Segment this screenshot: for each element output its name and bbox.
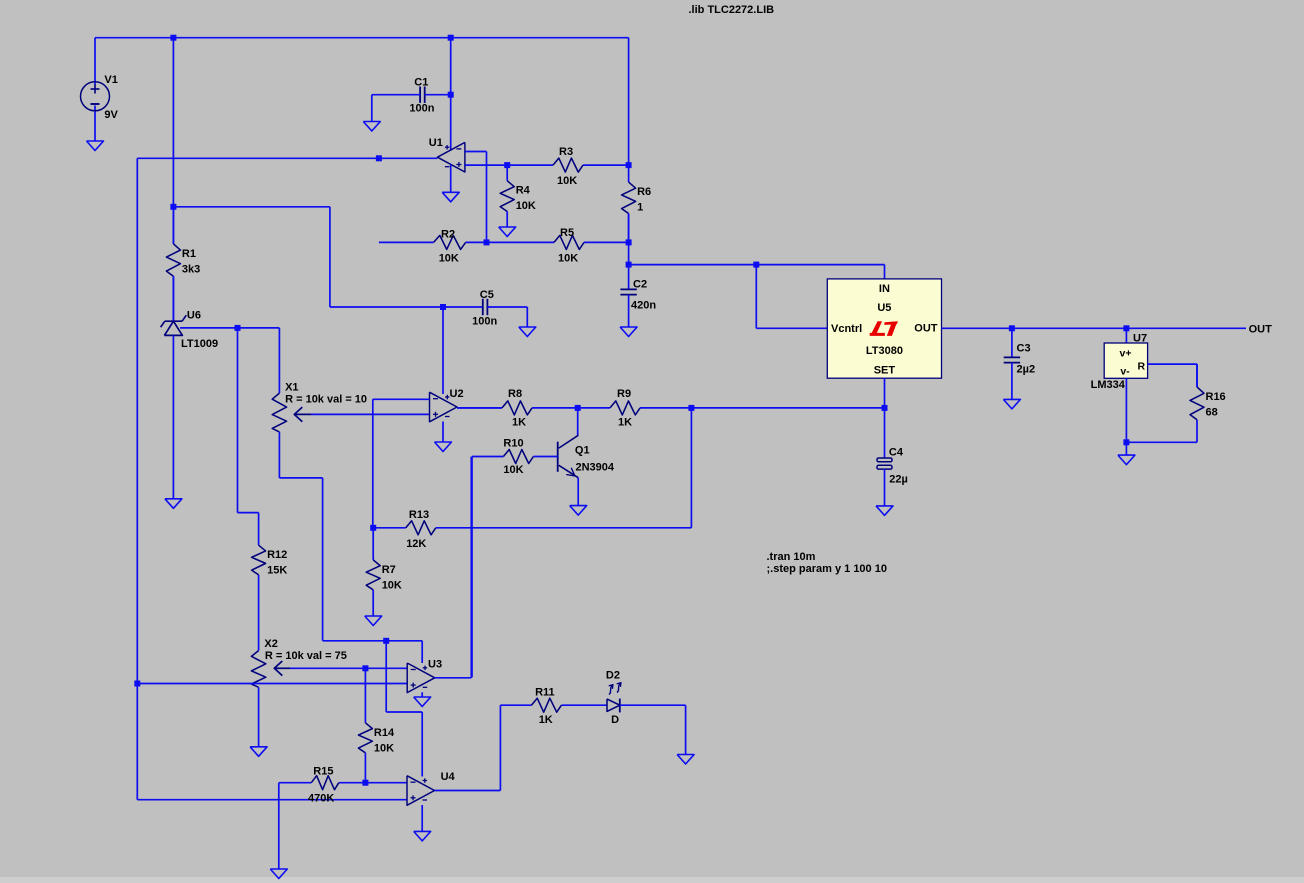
svg-text:1: 1 [637, 202, 643, 214]
svg-text:;.step param y 1 100 10: ;.step param y 1 100 10 [767, 563, 887, 575]
svg-text:1K: 1K [618, 416, 632, 428]
svg-text:C1: C1 [414, 77, 428, 89]
ground U6 [165, 499, 182, 509]
spice directive .lib [689, 4, 775, 16]
zener reference U6 LT1009 [161, 276, 280, 499]
wire top rail [95, 37, 629, 39]
svg-text:R13: R13 [409, 509, 429, 521]
ground X2 [250, 747, 267, 757]
wire R15 left down [278, 783, 280, 869]
svg-text:SET: SET [874, 364, 896, 376]
resistor R6 [622, 182, 652, 242]
svg-text:10K: 10K [558, 252, 578, 264]
net label OUT [1249, 324, 1273, 336]
svg-text:R15: R15 [313, 766, 333, 778]
wire X1 bottom path [279, 478, 322, 641]
node junction U6-out [235, 325, 241, 331]
op-amp U4 [407, 771, 456, 805]
node junction Vcntrl-branch [753, 262, 759, 268]
svg-text:R6: R6 [637, 186, 651, 198]
ground U2 [435, 442, 452, 452]
resistor R3 [507, 146, 628, 187]
node junction SET-C4 [882, 405, 888, 411]
node junction leftcol-U3in+ [134, 681, 140, 687]
node junction C5-left [440, 304, 446, 310]
wire U1 in+ stub [465, 164, 507, 166]
wire R10-left to U3 out col [471, 457, 473, 678]
svg-text:OUT: OUT [914, 323, 938, 335]
svg-text:U7: U7 [1133, 333, 1147, 345]
svg-text:U3: U3 [428, 658, 442, 670]
svg-text:C4: C4 [889, 446, 904, 458]
wire U2 in- row [373, 399, 430, 528]
wire U2 V+ column [442, 307, 444, 394]
wire U1 V- to ground [450, 165, 452, 193]
spice directive .tran [767, 551, 887, 575]
svg-text:10K: 10K [382, 579, 402, 591]
op-amp U1 [429, 137, 465, 172]
resistor R16 [1190, 364, 1226, 442]
ground C4 [876, 506, 893, 516]
ground R4 [499, 227, 516, 237]
resistor R15 [279, 766, 366, 805]
wire U3 V- to ground [421, 692, 423, 697]
svg-text:C2: C2 [633, 279, 647, 291]
wire U1 output [137, 157, 437, 159]
ground C5 [519, 327, 536, 337]
svg-text:D: D [611, 714, 619, 726]
node junction R9-SETrow [688, 405, 694, 411]
wire U3 output [435, 457, 472, 678]
wire U2 output [457, 407, 502, 409]
svg-text:R7: R7 [382, 564, 396, 576]
svg-text:R16: R16 [1206, 391, 1226, 403]
node junction C3 [1009, 325, 1015, 331]
wire R6 column top [628, 38, 630, 182]
resistor R8 [457, 388, 578, 429]
svg-text:100n: 100n [472, 316, 497, 328]
svg-text:LM334: LM334 [1091, 379, 1126, 391]
node junction R2-R5 [484, 239, 490, 245]
wire R12 column [238, 328, 259, 545]
ground U3 [414, 697, 431, 707]
wire U2 V- to ground [442, 422, 444, 443]
node junction U7-top [1123, 325, 1129, 331]
svg-text:R = 10k val = 10: R = 10k val = 10 [285, 394, 367, 406]
svg-text:X1: X1 [285, 381, 298, 393]
node junction U7-bottom [1123, 439, 1129, 445]
svg-text:470K: 470K [308, 793, 334, 805]
resistor R14 [358, 668, 395, 782]
svg-text:U1: U1 [429, 137, 443, 149]
wire U1 V+ column [450, 38, 452, 151]
wire C2node to U5 IN [629, 265, 885, 279]
resistor R13 [373, 509, 691, 550]
resistor R9 [578, 388, 692, 429]
wire U3 V+ rail [323, 641, 423, 663]
svg-text:U2: U2 [450, 388, 464, 400]
svg-text:9V: 9V [104, 109, 118, 121]
svg-text:10K: 10K [439, 253, 459, 265]
regulator U5 LT3080 [827, 279, 941, 378]
wire U5 SET to node [884, 378, 886, 408]
node junction C2-top [626, 262, 632, 268]
resistor R4 [500, 165, 536, 227]
wire Vcntrl branch [756, 265, 827, 329]
svg-text:2µ2: 2µ2 [1017, 364, 1036, 376]
wire R1 column [172, 38, 174, 244]
svg-text:.lib TLC2272.LIB: .lib TLC2272.LIB [689, 4, 775, 16]
capacitor C1 [372, 77, 451, 122]
wire X2 wiper to U3 in- [290, 667, 407, 669]
capacitor C5 [330, 289, 527, 328]
svg-text:R8: R8 [508, 388, 522, 400]
wire R9 to SET node [691, 407, 884, 409]
ground V1 [87, 141, 104, 151]
wire left col to C5 col [173, 207, 330, 307]
svg-text:R10: R10 [503, 438, 523, 450]
svg-text:420n: 420n [631, 300, 656, 312]
node junction C1 [448, 92, 454, 98]
svg-text:IN: IN [879, 283, 890, 295]
ground U1 [442, 192, 459, 202]
svg-text:v-: v- [1120, 366, 1130, 378]
svg-text:U4: U4 [441, 771, 456, 783]
wire U4 V- to ground [421, 805, 423, 831]
svg-text:10K: 10K [557, 175, 577, 187]
ground U4 [414, 831, 431, 841]
wire U4 output [435, 705, 501, 790]
svg-text:D2: D2 [606, 669, 620, 681]
resistor R2 [434, 229, 487, 265]
ground Q1 [570, 506, 587, 515]
svg-text:OUT: OUT [1249, 324, 1273, 336]
svg-text:X2: X2 [264, 638, 277, 650]
ground C1 [363, 122, 380, 132]
svg-text:10K: 10K [503, 464, 523, 476]
node junction R3-right [626, 162, 632, 168]
svg-text:R9: R9 [617, 388, 631, 400]
capacitor C4 [877, 408, 908, 506]
svg-text:R2: R2 [441, 229, 455, 241]
svg-text:10K: 10K [516, 200, 536, 212]
svg-text:.tran 10m: .tran 10m [767, 551, 816, 563]
resistor R10 [472, 438, 558, 476]
svg-text:v+: v+ [1120, 348, 1132, 360]
node junction R3-left [504, 162, 510, 168]
svg-text:C3: C3 [1017, 342, 1031, 354]
svg-text:1K: 1K [512, 416, 526, 428]
resistor R7 [366, 528, 402, 616]
capacitor C2 [620, 279, 656, 328]
svg-text:2N3904: 2N3904 [576, 461, 615, 473]
svg-text:3k3: 3k3 [182, 263, 200, 275]
wire U3 in+ row [137, 683, 407, 685]
node junction R14-R15 [362, 780, 368, 786]
svg-text:R5: R5 [560, 227, 574, 239]
op-amp U3 [407, 658, 442, 692]
svg-text:R: R [1138, 360, 1146, 372]
svg-text:R = 10k val = 75: R = 10k val = 75 [265, 650, 347, 662]
svg-text:R12: R12 [267, 549, 287, 561]
ground D2 [677, 755, 694, 765]
wire U1 in- stub [465, 152, 487, 243]
svg-text:C5: C5 [480, 289, 494, 301]
ground C3 [1003, 399, 1020, 409]
resistor R5 [487, 227, 629, 265]
svg-text:10K: 10K [374, 742, 394, 754]
svg-text:68: 68 [1206, 407, 1218, 419]
node junction R5-right [626, 239, 632, 245]
svg-text:12K: 12K [406, 538, 426, 550]
svg-text:R1: R1 [182, 248, 196, 260]
wire R16 bottom [1126, 441, 1197, 443]
ground R7 [365, 616, 382, 626]
ground R15 [270, 869, 287, 879]
svg-text:15K: 15K [267, 565, 287, 577]
potentiometer X2 [251, 638, 346, 747]
node junction R13-R7 [370, 525, 376, 531]
node junction R8-R9 [575, 405, 581, 411]
svg-text:R14: R14 [374, 727, 395, 739]
wire U7 ground stub [1125, 442, 1127, 455]
wire OUT rail [942, 327, 1247, 329]
wire R14node to U4 in- [365, 782, 407, 784]
wire R6-C2 link [628, 214, 630, 290]
svg-text:U6: U6 [187, 310, 201, 322]
wire far-left column [136, 158, 138, 799]
current source U7 LM334 [1091, 328, 1148, 442]
svg-text:22µ: 22µ [889, 474, 908, 486]
wire U4 in+ row [137, 799, 407, 801]
node junction top-left [170, 35, 176, 41]
resistor R1 [166, 207, 200, 321]
svg-text:LT1009: LT1009 [181, 338, 218, 350]
wire R13 to R9 junction col [690, 408, 692, 528]
node junction U1-out-R2col [376, 155, 382, 161]
voltage source V1 [81, 38, 119, 141]
potentiometer X1 [272, 328, 367, 478]
svg-text:1K: 1K [539, 714, 553, 726]
svg-text:R4: R4 [516, 185, 531, 197]
op-amp U2 [430, 388, 464, 422]
svg-text:Q1: Q1 [575, 444, 590, 456]
svg-text:R11: R11 [535, 687, 555, 699]
svg-text:LT3080: LT3080 [866, 345, 903, 357]
wire R2 row left [379, 241, 434, 243]
capacitor C3 [1004, 328, 1035, 399]
ground U7 [1118, 455, 1135, 465]
wire X1 wiper to U2 in+ [311, 413, 430, 415]
svg-text:U5: U5 [877, 302, 891, 314]
node junction top-C1col [448, 35, 454, 41]
svg-text:R3: R3 [559, 146, 573, 158]
svg-text:V1: V1 [104, 74, 117, 86]
wire U7 R pin [1148, 364, 1197, 387]
ground C2 [620, 327, 637, 337]
diode D2 LED [606, 669, 686, 754]
svg-text:Vcntrl: Vcntrl [831, 323, 862, 335]
svg-text:100n: 100n [409, 102, 434, 114]
resistor R12 [252, 545, 288, 650]
resistor R11 [500, 687, 607, 726]
node junction R1-top [170, 204, 176, 210]
node junction U3rail [383, 638, 389, 644]
node junction wiper-R14 [362, 665, 368, 671]
wire U3U4 supply jog [386, 641, 422, 777]
transistor Q1 2N3904 [558, 408, 615, 506]
